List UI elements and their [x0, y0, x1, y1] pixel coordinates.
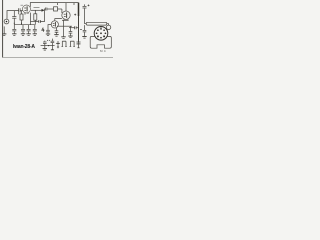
junction tick	[73, 3, 75, 5]
capacitor C2	[12, 17, 16, 24]
ground below border	[77, 42, 81, 48]
wire	[62, 19, 69, 21]
wire input	[7, 11, 19, 19]
wire	[3, 26, 5, 33]
tube V2	[62, 11, 70, 19]
ground	[82, 37, 86, 39]
ground	[12, 34, 16, 36]
terminal pair A	[62, 41, 67, 46]
capacitor C6	[21, 25, 25, 34]
resistor R3	[85, 22, 109, 25]
capacitor C16	[51, 39, 55, 50]
wire right border	[78, 3, 80, 16]
wire	[20, 10, 23, 12]
wire	[69, 27, 75, 29]
ground	[43, 49, 47, 51]
border left	[2, 0, 4, 58]
resistor R1	[20, 11, 23, 25]
wire grid V2	[61, 9, 63, 13]
capacitor C7	[27, 25, 31, 34]
ground	[51, 49, 54, 51]
resistor R4	[47, 7, 62, 11]
ground	[26, 34, 30, 36]
wire	[55, 19, 62, 21]
ground	[68, 36, 72, 38]
wire	[63, 19, 65, 20]
wire	[40, 9, 45, 22]
cathode net wire	[84, 25, 86, 30]
wire plate V2	[65, 3, 67, 11]
wire stub	[42, 28, 45, 32]
socket box	[90, 36, 111, 48]
ground	[56, 41, 60, 48]
electrolytic capacitor C13	[83, 4, 90, 23]
tube V3	[51, 21, 58, 28]
wire	[30, 13, 32, 25]
capacitor C3	[39, 20, 41, 23]
filament circuit wire	[41, 45, 55, 47]
bus wire	[14, 24, 35, 26]
capacitor C15	[43, 41, 47, 49]
capacitor C11	[55, 28, 59, 35]
wire	[48, 25, 51, 31]
svg-text:Iwan-28-A: Iwan-28-A	[13, 44, 35, 50]
wire	[76, 27, 78, 29]
svg-text:M 4: M 4	[100, 49, 106, 53]
capacitor C8	[75, 26, 77, 29]
pilot lamp	[106, 25, 110, 29]
ground	[61, 37, 65, 39]
grid leak net wire	[13, 11, 15, 25]
wire	[31, 21, 39, 23]
capacitor C14	[83, 30, 87, 36]
capacitor C12	[69, 26, 73, 36]
tick mark	[80, 29, 82, 31]
label a	[21, 4, 24, 6]
tick on right border	[76, 41, 80, 43]
coupling capacitor C1	[19, 8, 21, 14]
resistor R2	[34, 10, 37, 24]
capacitor C9	[33, 25, 37, 34]
capacitor C4	[45, 8, 47, 11]
junction tick	[57, 3, 59, 5]
wire	[67, 19, 69, 20]
arrow out	[31, 8, 45, 12]
bus wire	[57, 25, 72, 27]
ground	[46, 34, 50, 36]
tube V1	[23, 5, 31, 15]
wire	[63, 20, 65, 36]
plus mark	[74, 14, 76, 16]
ground	[2, 34, 6, 36]
input jack J1	[4, 19, 9, 24]
capacitor C10	[46, 30, 50, 34]
border bottom	[3, 56, 113, 58]
terminal pair B	[70, 41, 75, 46]
capacitor C5	[12, 25, 16, 34]
tube socket	[94, 27, 108, 41]
ground	[21, 34, 25, 36]
B+ rail wire	[30, 3, 78, 7]
ground	[54, 35, 58, 37]
junction dot	[48, 45, 49, 46]
ground	[33, 34, 37, 36]
